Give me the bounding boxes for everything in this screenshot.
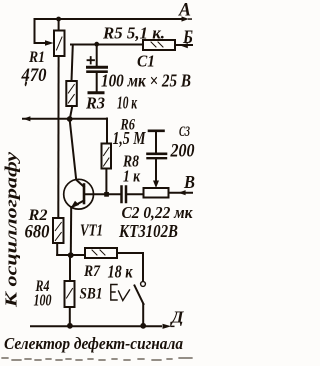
wire switch bottom lead (142, 304, 144, 326)
wire R1 top lead (58, 19, 60, 31)
svg-text:Селектор дефект-сигнала: Селектор дефект-сигнала (4, 334, 183, 353)
wire Б rail right segment (175, 44, 192, 46)
node R1 wiper arrow (45, 40, 54, 46)
svg-text:680: 680 (25, 223, 50, 243)
node base junction (104, 192, 109, 197)
label R2 (27, 207, 47, 224)
label А (178, 0, 191, 21)
label R1 (28, 49, 45, 66)
wire Б corner down to R3 (72, 45, 73, 82)
wire R1 bottom to R2 (57, 56, 59, 218)
capacitor C2 (122, 187, 127, 203)
label R5 5,1 к (102, 24, 165, 43)
node R1 top junction (56, 17, 61, 22)
label 100 мк x 25 В (101, 71, 191, 91)
terminal В arrow (178, 190, 185, 195)
wire R6 bottom lead (105, 169, 107, 195)
svg-text:R1: R1 (28, 49, 45, 66)
label SB1 (80, 286, 103, 303)
label R6 (120, 117, 135, 134)
label К осциллографу (2, 151, 21, 308)
label 200 (170, 142, 195, 162)
svg-text:С1: С1 (137, 52, 155, 71)
label С1 (137, 52, 155, 71)
switch SB1 (111, 282, 146, 304)
svg-text:18 к: 18 к (108, 262, 134, 282)
svg-text:Б: Б (182, 28, 193, 48)
svg-text:R2: R2 (27, 207, 47, 224)
svg-text:В: В (183, 172, 195, 192)
svg-text:Д: Д (169, 308, 184, 327)
resistor R4 (65, 281, 75, 307)
label 18 к (108, 262, 134, 282)
wire base lead (84, 193, 121, 195)
wire output В (169, 192, 193, 194)
wire emitter lead down (70, 207, 72, 255)
node emitter junction (68, 252, 74, 258)
svg-text:R7: R7 (83, 263, 101, 280)
transistor VT1 (64, 119, 94, 209)
label Б (182, 28, 193, 48)
node switch bottom junction (140, 323, 146, 329)
resistor R6 (102, 144, 112, 169)
wire top rail A (35, 18, 182, 20)
label КТ3102В (118, 221, 178, 241)
svg-text:470: 470 (21, 66, 47, 86)
wire R2 bottom lead (56, 243, 58, 255)
wire bottom rail Д (31, 325, 161, 327)
label 470 (21, 66, 47, 86)
wire R4 bottom lead (69, 307, 71, 326)
svg-text:К осциллографу: К осциллографу (2, 151, 21, 308)
wire R3 bottom to collector (70, 106, 73, 119)
label 100 (34, 291, 52, 310)
wire Б rail left segment (71, 44, 143, 46)
label 680 (25, 223, 50, 243)
wire R7 to switch (117, 253, 143, 281)
node C1 tap junction (94, 42, 99, 47)
svg-text:SB1: SB1 (80, 286, 103, 303)
label R8 (122, 152, 139, 171)
label R3 (85, 94, 105, 113)
label R4 (35, 278, 50, 295)
label С3 (179, 124, 190, 140)
svg-text:R3: R3 (85, 94, 105, 113)
resistor R1 (54, 31, 65, 57)
label 1 к (123, 167, 140, 186)
svg-text:100: 100 (34, 291, 52, 310)
terminal Д arrow (163, 324, 175, 329)
svg-text:10 к: 10 к (117, 93, 138, 113)
node C3 wiper arrow on R8 (153, 181, 159, 189)
label 10 к (117, 93, 138, 113)
wire oscilloscope tap line (23, 118, 107, 120)
node R4 bottom junction (67, 323, 73, 329)
wire R4 top lead (69, 255, 71, 281)
decorative dotted rule (2, 358, 192, 360)
label R7 (83, 263, 101, 280)
capacitor C3 (148, 131, 167, 182)
wire R6 top feed (106, 119, 108, 144)
node collector junction (67, 116, 73, 122)
svg-text:1 к: 1 к (123, 167, 140, 186)
resistor R7 (85, 248, 117, 258)
label В (183, 172, 195, 192)
svg-text:С2 0,22 мк: С2 0,22 мк (122, 203, 193, 222)
svg-text:1,5 М: 1,5 М (113, 128, 147, 148)
wire R1 wiper loop (35, 19, 47, 43)
wire C2 to R8 (127, 193, 143, 195)
svg-text:100 мк × 25 В: 100 мк × 25 В (101, 71, 191, 91)
resistor R8 (144, 188, 169, 198)
decorative edge marks (25, 81, 27, 86)
label С2 0,22 мк (122, 203, 193, 222)
wire emitter rail (57, 253, 85, 255)
label VT1 (80, 221, 103, 240)
svg-text:R5 5,1 к.: R5 5,1 к. (102, 24, 165, 43)
node emitter arrow (71, 201, 80, 209)
label Д (169, 308, 184, 327)
capacitor C1 (88, 45, 107, 93)
terminal Б arrow (181, 43, 188, 48)
resistor R3 (66, 81, 77, 106)
terminal А arrow (182, 16, 193, 21)
svg-text:А: А (178, 0, 191, 21)
resistor R2 (53, 218, 64, 243)
label caption Селектор дефект сигнала (4, 334, 183, 353)
svg-text:С3: С3 (179, 124, 190, 140)
terminal oscilloscope arrow (23, 116, 30, 121)
svg-text:VT1: VT1 (80, 221, 103, 240)
resistor R5 (143, 40, 175, 50)
svg-text:200: 200 (170, 142, 195, 162)
label 1,5 М (113, 128, 147, 148)
svg-text:КТ3102В: КТ3102В (118, 221, 178, 241)
